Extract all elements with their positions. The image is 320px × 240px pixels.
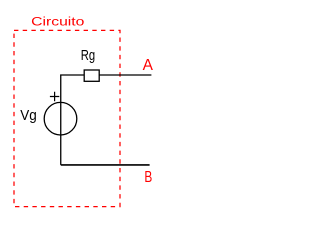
wire bottom: source to terminal B: [61, 164, 150, 166]
svg-text:Circuito: Circuito: [31, 15, 84, 29]
svg-text:Vg: Vg: [20, 107, 37, 124]
svg-text:B: B: [144, 169, 152, 186]
polarity plus sign: [50, 92, 59, 101]
svg-text:A: A: [143, 57, 154, 74]
wire top: source to terminal A: [61, 75, 152, 165]
resistor Rg (box): [84, 70, 99, 81]
voltage source Vg (circle): [44, 102, 77, 135]
svg-text:Rg: Rg: [81, 48, 95, 64]
enclosure dashed box (Circuito): [14, 30, 120, 206]
